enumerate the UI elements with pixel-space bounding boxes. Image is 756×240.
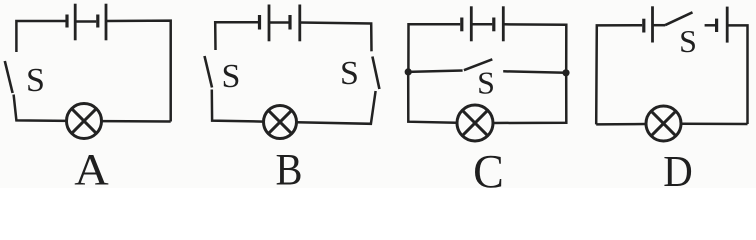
wire C middle branch right bbox=[503, 71, 566, 73]
node junction dot C left bbox=[405, 68, 412, 75]
battery D cell 1 long plate (positive) bbox=[651, 6, 654, 42]
wire D bottom-left segment bbox=[596, 123, 645, 126]
battery A cell 2 short plate (negative) bbox=[96, 15, 99, 28]
wire B top-left segment bbox=[215, 22, 258, 50]
battery D cell 2 long plate (positive) bbox=[726, 7, 729, 43]
lamp L A (circle with cross) bbox=[67, 104, 102, 139]
battery D cell 2 short plate (negative) bbox=[715, 19, 718, 32]
lamp L C (circle with cross) bbox=[457, 105, 493, 141]
node junction dot C right bbox=[562, 69, 569, 76]
switch S2 blade B right (open, leaning right) bbox=[372, 57, 379, 90]
lamp L B (circle with cross) bbox=[264, 106, 297, 139]
battery A cell 1 short plate (negative) bbox=[65, 15, 68, 28]
battery C cell 2 short plate (negative) bbox=[492, 18, 495, 32]
battery A cell 1 long plate (positive) bbox=[74, 4, 77, 41]
wire D battery to switch bbox=[653, 24, 666, 27]
wire C middle branch left bbox=[408, 71, 462, 72]
battery C cell 1 long plate (positive) bbox=[470, 6, 473, 41]
switch S1 blade B left (open, leaning left) bbox=[205, 56, 213, 88]
wire A between battery cells bbox=[75, 20, 96, 23]
wire C lower-left side bbox=[408, 72, 456, 123]
svg-text:D: D bbox=[663, 147, 693, 188]
battery D cell 1 short plate (negative) bbox=[642, 19, 645, 33]
svg-text:S: S bbox=[477, 65, 495, 101]
wire C between battery cells bbox=[471, 23, 492, 26]
switch S blade D (open, tilted up) bbox=[665, 12, 693, 25]
svg-text:S: S bbox=[26, 62, 45, 99]
svg-text:B: B bbox=[276, 145, 303, 188]
svg-text:S: S bbox=[222, 58, 241, 95]
wire A top-left segment bbox=[16, 21, 65, 52]
svg-text:S: S bbox=[340, 55, 359, 92]
svg-text:S: S bbox=[679, 23, 697, 59]
battery C cell 2 long plate (positive) bbox=[502, 6, 505, 41]
lamp L D (circle with cross) bbox=[646, 106, 681, 141]
wire B top-right + right side upper bbox=[300, 23, 372, 52]
battery C cell 1 short plate (negative) bbox=[460, 18, 463, 32]
battery B cell 2 long plate (positive) bbox=[298, 5, 301, 42]
wire D top-left segment bbox=[596, 25, 642, 124]
wire B between battery cells bbox=[269, 21, 289, 24]
wire C top-right + right side upper bbox=[503, 24, 566, 73]
wire B lower-left segment bbox=[212, 90, 264, 122]
battery B cell 2 short plate (negative) bbox=[288, 15, 291, 30]
wire A lower-left segment bbox=[14, 95, 67, 121]
wire A bottom-right segment bbox=[102, 120, 171, 123]
svg-text:A: A bbox=[74, 145, 109, 188]
switch S blade C (open, tilted up) bbox=[464, 59, 492, 70]
switch S blade A (open, leaning left) bbox=[5, 61, 13, 93]
wire C top-left segment bbox=[408, 24, 460, 72]
svg-text:C: C bbox=[473, 146, 504, 189]
battery A cell 2 long plate (positive) bbox=[105, 4, 108, 41]
wire D switch to battery cell 2 bbox=[705, 24, 715, 27]
wire D bottom-right segment bbox=[682, 122, 748, 125]
battery B cell 1 short plate (negative) bbox=[258, 15, 261, 30]
wire B bottom-right + lower-right segment bbox=[297, 91, 376, 124]
wire D top-right + right side bbox=[727, 25, 747, 124]
wire A top-right + right side bbox=[106, 21, 171, 122]
battery B cell 1 long plate (positive) bbox=[268, 5, 271, 42]
wire C bottom-right + lower-right side bbox=[494, 73, 567, 123]
